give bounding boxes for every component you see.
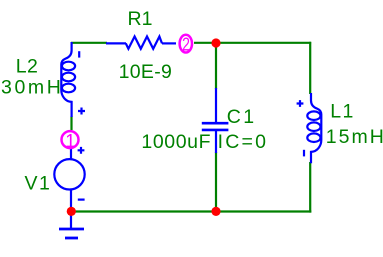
svg-text:15mH: 15mH [326, 126, 383, 148]
svg-text:L2: L2 [16, 56, 39, 78]
svg-text:IC=0: IC=0 [218, 131, 269, 153]
svg-text:30mH: 30mH [1, 76, 63, 98]
svg-text:R1: R1 [128, 8, 153, 30]
svg-text:V1: V1 [25, 173, 52, 195]
svg-text:L1: L1 [330, 100, 355, 122]
svg-text:C1: C1 [227, 106, 257, 128]
svg-text:1000uF: 1000uF [141, 131, 211, 153]
svg-text:10E-9: 10E-9 [119, 61, 173, 83]
svg-text:1: 1 [65, 130, 75, 151]
svg-text:2: 2 [182, 35, 190, 55]
